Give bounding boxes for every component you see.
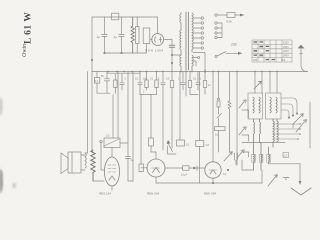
field coil resistor zigzag (91, 150, 95, 181)
resistor row box x205 (204, 72, 206, 81)
can1 coil b (259, 97, 260, 113)
switch contacts right (296, 113, 298, 115)
long wire x180 (179, 72, 181, 141)
bottom right bus (262, 164, 300, 183)
long wire x118 (117, 72, 119, 139)
capacitor right of output tube (126, 143, 131, 181)
resistor box x151 (149, 138, 154, 146)
coil below can1 (254, 119, 255, 147)
long wire x151 (150, 95, 152, 139)
capacitor row x163 (161, 72, 165, 91)
wire x237 (236, 72, 238, 101)
tap fan lines (275, 124, 300, 139)
tube2 bottom (155, 177, 157, 183)
transformer bottom taps (193, 53, 205, 72)
long wire x199 (199, 72, 201, 141)
fan contact dots (299, 123, 301, 125)
pilot lamp (298, 45, 305, 49)
IF can 1 (255, 72, 262, 94)
triode tube2 REN904 (147, 159, 165, 177)
voltage table (252, 40, 292, 62)
capacitor row x122 (120, 74, 124, 90)
svg-text:220V: 220V (283, 50, 289, 53)
top supply rail (92, 16, 158, 18)
resistor R box supply 2 (143, 28, 150, 44)
lower coil 3 (269, 147, 270, 164)
small cap right of tube3 (235, 153, 238, 165)
wave switch lever 2 (239, 127, 246, 135)
trimmer arrow right of tube3 (224, 152, 232, 161)
heater bus (92, 71, 308, 73)
switch arrow mid (168, 144, 172, 152)
T1 taps column 1 (193, 17, 204, 49)
row link wire (97, 92, 110, 94)
svg-text:240V: 240V (283, 55, 289, 58)
antenna drop wire (299, 164, 301, 182)
T1 secondary winding (192, 13, 193, 52)
T1 core (186, 12, 189, 70)
capacitor C2 (119, 17, 124, 53)
svg-text:Owin: Owin (22, 44, 28, 57)
long wire x133 (132, 72, 134, 182)
svg-text:230: 230 (231, 43, 237, 47)
long wire x87 (85, 72, 88, 154)
switch bar wire (242, 142, 285, 144)
long wire x186 (185, 72, 187, 97)
svg-text:RGN 1064: RGN 1064 (145, 48, 164, 52)
resistor row box x157 (156, 72, 158, 81)
resistor row box x115 (114, 74, 116, 80)
resistor row box x190 (189, 72, 191, 81)
speaker box (68, 152, 81, 173)
capacitor row x107 (104, 72, 109, 94)
IF can 2 (270, 72, 277, 94)
rectifier output wire (164, 40, 172, 46)
scan smudge left edge (0, 96, 16, 194)
capacitor C1 (102, 17, 107, 53)
long wire x172 (171, 95, 173, 149)
speaker cone (61, 153, 68, 174)
variable cap arrow bottom right (268, 175, 277, 186)
output transformer winding (85, 153, 86, 168)
long wire x113 (112, 95, 114, 139)
row link wire (140, 94, 157, 96)
label 02 (283, 153, 289, 158)
resistor box A (177, 140, 185, 146)
component chain x218 (218, 98, 220, 100)
terminal tick (283, 178, 289, 181)
left supply vertical wire (91, 17, 93, 72)
svg-text:Volt: Volt (281, 59, 285, 62)
tapped coil below can2 (273, 119, 274, 147)
row link wire (190, 94, 198, 96)
antenna arrowhead (299, 181, 302, 185)
grid wire into tube (101, 143, 104, 170)
wire to transformer (172, 54, 181, 56)
T1 taps column 2 (215, 14, 222, 39)
bottom left jog (242, 160, 254, 170)
resistor box between tubes (183, 166, 190, 170)
long wire x141 (140, 95, 142, 165)
voltage selector switch (215, 56, 217, 58)
supply lower rail (105, 52, 147, 54)
band switch lever right (293, 114, 303, 124)
node on left wire (91, 59, 93, 61)
label box left (96, 72, 98, 78)
wave switch lever 1 (239, 100, 246, 108)
svg-text:2μ: 2μ (97, 35, 101, 39)
svg-text:REN 904: REN 904 (147, 192, 160, 196)
mains plug arrow top (240, 14, 245, 17)
svg-text:RES 164: RES 164 (99, 192, 111, 196)
rectifier tube RGN1064 (157, 17, 159, 33)
long wire x163 (162, 90, 164, 150)
long wire x218 (218, 72, 220, 99)
resistor row box x172 (171, 72, 173, 81)
resistor R box supply (136, 17, 138, 27)
capacitor row x183 (181, 72, 185, 91)
mains plug arrow bottom (238, 52, 243, 55)
resistor box x199 (196, 141, 204, 147)
svg-text:4μ: 4μ (114, 35, 118, 39)
lower coil 2 (261, 143, 262, 171)
bus junction dots (107, 71, 278, 73)
mains fuse (217, 14, 227, 16)
svg-text:0,5A: 0,5A (226, 20, 232, 24)
wire x237 lower (236, 100, 238, 165)
wave switch lever 3 (237, 150, 244, 158)
svg-text:240: 240 (253, 59, 258, 62)
title Owin L 61 W (22, 12, 34, 57)
link arcs from can2 (281, 98, 297, 116)
wire between tubes (165, 167, 205, 169)
grid coupling box tube2 (139, 164, 143, 172)
resistor row box x146 (146, 72, 148, 81)
triode tube3 REN904 (205, 162, 221, 178)
svg-text:L 61 W: L 61 W (24, 12, 34, 44)
svg-text:REN 904: REN 904 (204, 192, 217, 196)
output tube bottom wire (93, 181, 133, 190)
resistor R zigzag supply (131, 17, 134, 53)
svg-text:0,1: 0,1 (95, 79, 99, 83)
can2 coil b (276, 97, 277, 113)
long wire x93 (92, 72, 93, 153)
heater bus second (108, 72, 141, 74)
earth symbol (291, 188, 311, 195)
mains transformer T1 (180, 12, 194, 72)
capacitor row x140 (138, 72, 142, 95)
band lever 2 (296, 120, 307, 132)
long wire x213 (212, 72, 214, 163)
can1 coil a (253, 97, 254, 113)
svg-text:125V: 125V (283, 41, 289, 44)
fuse Si on rail (112, 13, 119, 20)
lower coil 1 (254, 147, 255, 170)
capacitor row x198 (196, 72, 200, 91)
grid resistor box above output tube (100, 140, 102, 142)
T1 primary winding (180, 13, 181, 31)
tube3 bottom (212, 178, 214, 183)
capacitor at rectifier (169, 45, 174, 47)
resistor box x218 horizontal (215, 127, 226, 131)
svg-text:150V: 150V (283, 46, 289, 49)
right vertical wire (309, 102, 311, 148)
svg-text:0,1μF: 0,1μF (181, 173, 188, 176)
output tube RES164 (104, 157, 119, 186)
can2 coil a (270, 97, 271, 113)
bottom return wire (156, 182, 262, 184)
choke on wire x229 (229, 72, 231, 102)
long wire x128 (127, 72, 129, 144)
trimmer arrow on x255 (254, 81, 261, 89)
svg-text:0,2: 0,2 (284, 154, 288, 158)
